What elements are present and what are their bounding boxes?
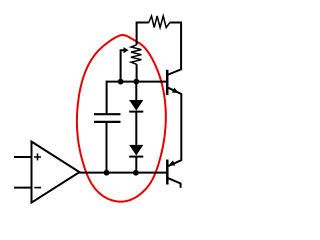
potentiometer R2 (vertical zigzag) (131, 45, 141, 65)
diode D1 cathode bar (129, 111, 143, 113)
op-amp + symbol (34, 153, 41, 160)
resistor R1 (horizontal zigzag) (149, 16, 170, 28)
capacitor C1 top lead (106, 81, 108, 115)
red highlight ellipse (77, 35, 166, 202)
transistor Q1 emitter arrowhead (172, 88, 179, 93)
wire top left corner to resistor R1 (137, 22, 149, 24)
transistor Q2 base bar (166, 160, 169, 185)
mid horizontal wire (107, 81, 168, 83)
transistor Q1 base bar (166, 70, 169, 95)
potentiometer wiper wire (121, 50, 124, 81)
transistor Q1 emitter and wire down to Q2 emitter (167, 87, 181, 166)
diode D1 to D2 lead (135, 112, 137, 145)
potentiometer wiper arrowhead (124, 47, 129, 53)
bottom bus wire (80, 172, 168, 174)
capacitor C1 bottom plate (94, 121, 121, 123)
op-amp + input wire (14, 156, 32, 158)
diode D2 triangle (129, 145, 143, 156)
potentiometer R2 bottom lead (136, 64, 138, 81)
potentiometer R2 top lead (136, 22, 138, 45)
op-amp - input wire (14, 187, 32, 189)
junction dot (wiper / mid wire) (118, 79, 124, 85)
capacitor C1 bottom lead (106, 122, 108, 173)
transistor Q2 collector (167, 178, 180, 188)
diode D1 triangle (129, 100, 143, 111)
transistor Q2 emitter arrowhead (169, 160, 176, 165)
diode D1 top lead (135, 82, 137, 100)
capacitor C1 top plate (94, 113, 121, 115)
op-amp - symbol (34, 187, 41, 189)
op-amp U1 triangle (32, 142, 80, 203)
junction dot (diode D2 / bus) (133, 170, 139, 176)
wire resistor R1 to right corner and down to Q1 collector (167, 23, 181, 76)
diode D2 bottom lead (135, 157, 137, 173)
diode D2 cathode bar (129, 156, 143, 158)
junction dot (pot bottom / diode top) (133, 79, 139, 85)
junction dot (cap bottom / bus) (104, 170, 110, 176)
